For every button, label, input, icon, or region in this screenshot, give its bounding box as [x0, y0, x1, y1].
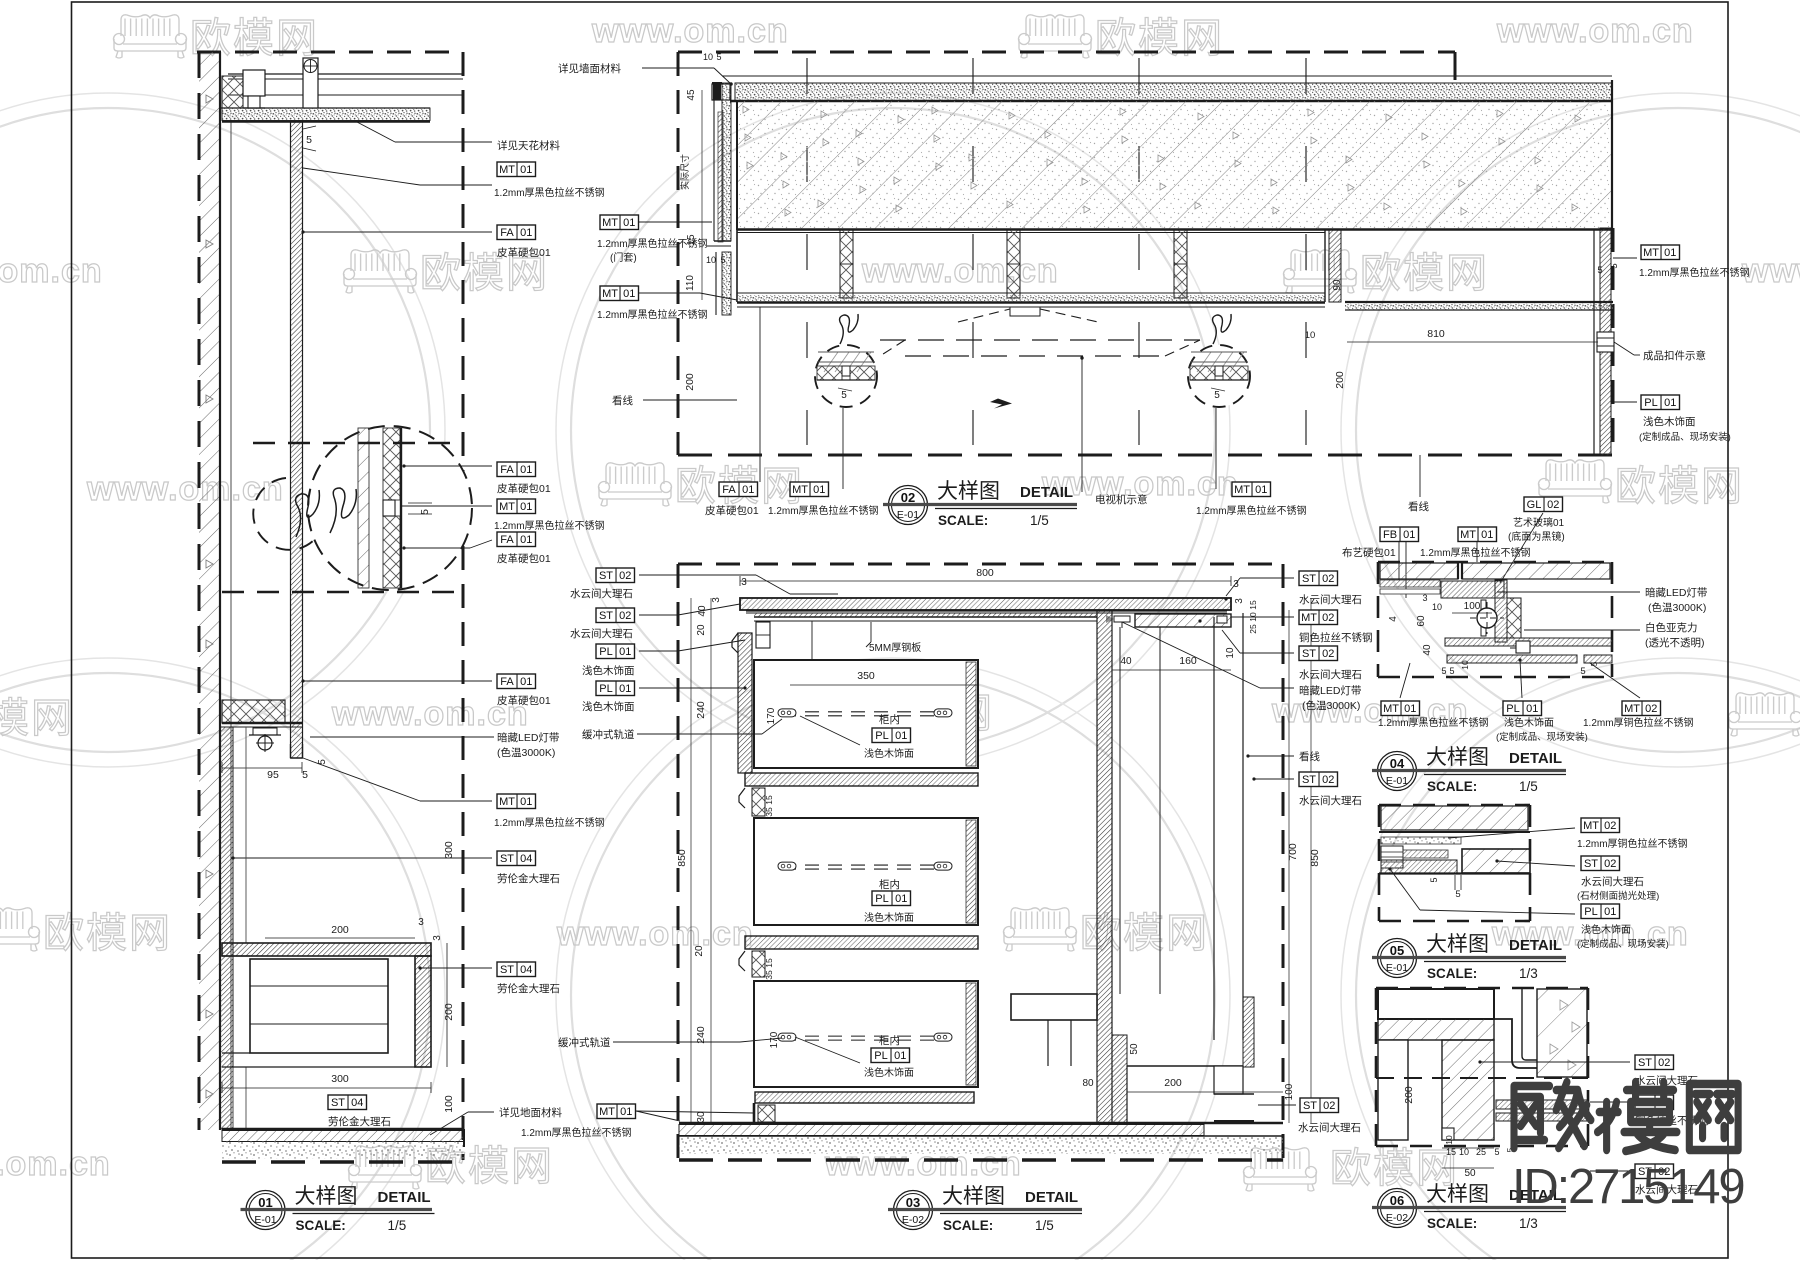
bench/drawer right	[1011, 994, 1097, 1020]
svg-text:5: 5	[716, 52, 721, 62]
svg-text:MT: MT	[1301, 612, 1317, 624]
svg-text:01: 01	[1664, 397, 1676, 409]
svg-text:300: 300	[331, 1073, 349, 1085]
svg-text:01: 01	[520, 534, 532, 546]
dashed lines inside detail01	[253, 442, 462, 445]
svg-text:04: 04	[520, 964, 532, 976]
svg-text:04: 04	[1390, 756, 1405, 771]
svg-text:01: 01	[1255, 484, 1267, 496]
svg-text:02: 02	[1604, 858, 1616, 870]
svg-text:FB: FB	[1383, 529, 1397, 541]
svg-text:3: 3	[1422, 593, 1427, 603]
label ST04 niche	[497, 962, 536, 977]
svg-text:95: 95	[267, 769, 279, 781]
labels left of detail03	[596, 568, 635, 583]
LED fixture detail03	[1114, 616, 1130, 622]
svg-text:www.om.cn: www.om.cn	[861, 252, 1059, 290]
svg-text:浅色木饰面: 浅色木饰面	[582, 664, 635, 677]
svg-text:皮革硬包01: 皮革硬包01	[497, 552, 551, 565]
top wall hatch d05	[1381, 806, 1528, 830]
svg-text:01: 01	[520, 227, 532, 239]
label clip	[1614, 342, 1634, 355]
svg-text:FA: FA	[500, 227, 514, 239]
svg-text:3: 3	[711, 597, 722, 603]
svg-text:10: 10	[706, 255, 716, 265]
svg-text:SCALE:: SCALE:	[1427, 966, 1477, 981]
svg-text:浅色木饰面: 浅色木饰面	[864, 1066, 914, 1079]
svg-text:35: 35	[764, 970, 774, 980]
plinth right zone	[1127, 1065, 1243, 1067]
svg-text:MT: MT	[602, 217, 618, 229]
detail 04 title block	[1372, 746, 1566, 794]
svg-text:水云间大理石: 水云间大理石	[570, 587, 633, 600]
TV dashed silhouette	[1010, 307, 1040, 316]
leader to ceiling label	[357, 122, 395, 142]
svg-text:ID:2715149: ID:2715149	[1512, 1160, 1743, 1214]
cabinet right partition	[1097, 611, 1112, 1124]
svg-text:1/3: 1/3	[1519, 966, 1538, 981]
svg-text:25: 25	[1248, 624, 1258, 634]
svg-text:暗藏LED灯带: 暗藏LED灯带	[1645, 586, 1707, 599]
svg-text:详见地面材料: 详见地面材料	[499, 1106, 562, 1119]
svg-text:(透光不透明): (透光不透明)	[1645, 636, 1705, 649]
top beam d06	[1378, 989, 1494, 1019]
svg-text:1/5: 1/5	[1030, 513, 1049, 528]
concrete hatch band	[737, 102, 1612, 230]
svg-text:(色温3000K): (色温3000K)	[497, 746, 555, 759]
svg-text:ST: ST	[1638, 1057, 1652, 1069]
right wing structure	[1324, 230, 1326, 302]
svg-text:15: 15	[764, 958, 774, 968]
svg-text:01: 01	[619, 646, 631, 658]
svg-text:大样图: 大样图	[942, 1185, 1005, 1208]
svg-text:02: 02	[1658, 1057, 1670, 1069]
svg-text:柜内: 柜内	[879, 1034, 900, 1047]
svg-text:E-01: E-01	[1386, 962, 1408, 974]
svg-text:5: 5	[302, 769, 308, 781]
label FA01 (leather panel)	[497, 225, 536, 240]
svg-text:E-01: E-01	[897, 509, 919, 521]
svg-text:DETAIL: DETAIL	[378, 1189, 431, 1206]
svg-text:5: 5	[1429, 877, 1439, 882]
label MT01 doorframe	[600, 215, 639, 230]
svg-text:1/5: 1/5	[1035, 1218, 1054, 1233]
svg-text:大样图: 大样图	[1426, 1183, 1489, 1206]
svg-text:FA: FA	[722, 484, 736, 496]
svg-text:艺术玻璃01: 艺术玻璃01	[1513, 516, 1565, 529]
ceiling assembly detail01	[228, 73, 463, 75]
svg-text:欧模网: 欧模网	[0, 695, 74, 741]
svg-text:1.2mm厚黑色拉丝不锈钢: 1.2mm厚黑色拉丝不锈钢	[597, 237, 708, 250]
steel plate lines	[754, 616, 1097, 618]
right niche verticals	[1119, 627, 1121, 994]
svg-text:劳伦金大理石: 劳伦金大理石	[497, 982, 560, 995]
break squiggle above right balloon	[1213, 314, 1232, 344]
lower bands d06 (partly hidden by big watermark)	[1496, 1100, 1588, 1109]
svg-text:PL: PL	[599, 683, 612, 695]
svg-text:SCALE:: SCALE:	[943, 1218, 993, 1233]
svg-text:60: 60	[1416, 615, 1427, 627]
svg-text:30: 30	[696, 1111, 707, 1123]
svg-text:SCALE:: SCALE:	[1427, 779, 1477, 794]
svg-text:(色温3000K): (色温3000K)	[1302, 699, 1360, 712]
svg-text:大样图: 大样图	[937, 480, 1000, 503]
shelf band 1	[745, 773, 978, 786]
svg-text:水云间大理石: 水云间大理石	[1299, 593, 1362, 606]
watermark big circles	[0, 108, 430, 752]
svg-text:ST: ST	[1302, 573, 1316, 585]
svg-text:5: 5	[306, 134, 312, 146]
svg-text:100: 100	[443, 1095, 455, 1113]
svg-text:110: 110	[685, 275, 696, 291]
svg-text:PL: PL	[1506, 703, 1519, 715]
svg-text:1.2mm厚黑色拉丝不锈钢: 1.2mm厚黑色拉丝不锈钢	[1639, 266, 1750, 279]
right wall vertical strips	[1593, 230, 1595, 456]
svg-text:15: 15	[764, 795, 774, 805]
svg-text:3: 3	[741, 577, 747, 588]
right concrete d06	[1537, 989, 1587, 1077]
svg-text:成品扣件示意: 成品扣件示意	[1643, 349, 1706, 362]
labels below detail02	[759, 307, 761, 482]
svg-text:05: 05	[1390, 943, 1404, 958]
svg-text:(定制成品、现场安装): (定制成品、现场安装)	[1639, 431, 1731, 443]
svg-text:02: 02	[1322, 648, 1334, 660]
svg-text:1.2mm厚黑色拉丝不锈钢: 1.2mm厚黑色拉丝不锈钢	[494, 816, 605, 829]
svg-text:欧模网: 欧模网	[1615, 463, 1744, 509]
svg-text:MT: MT	[1383, 703, 1399, 715]
svg-text:ST: ST	[1584, 858, 1598, 870]
svg-text:铜色拉丝不锈钢: 铜色拉丝不锈钢	[1299, 631, 1373, 644]
svg-text:1.2mm厚黑色拉丝不锈钢: 1.2mm厚黑色拉丝不锈钢	[521, 1126, 632, 1139]
svg-text:01: 01	[742, 484, 754, 496]
svg-text:01: 01	[895, 730, 907, 742]
svg-text:PL: PL	[874, 1050, 887, 1062]
svg-text:ST: ST	[1303, 1100, 1317, 1112]
svg-text:皮革硬包01: 皮革硬包01	[497, 694, 551, 707]
svg-text:02: 02	[1322, 612, 1334, 624]
detail 04 drawing	[1342, 497, 1707, 743]
svg-text:PL: PL	[875, 893, 888, 905]
curtain pocket panel strip	[291, 122, 303, 758]
detail 01 drawing	[197, 52, 680, 1162]
labels right of detail03	[1299, 571, 1338, 586]
label MT01 lower-left	[600, 286, 639, 301]
detail04 dashed border	[1378, 561, 1612, 564]
svg-text:MT: MT	[499, 501, 515, 513]
svg-text:10: 10	[1225, 647, 1236, 659]
svg-text:MT: MT	[1624, 703, 1640, 715]
label floor material	[430, 1112, 468, 1135]
top hatch band d04	[1380, 563, 1458, 579]
svg-text:15: 15	[1248, 600, 1258, 610]
svg-text:15: 15	[1446, 1147, 1456, 1157]
svg-text:35: 35	[764, 807, 774, 817]
LED fixture symbol	[253, 728, 277, 735]
stone band horizontal d06	[1378, 1019, 1494, 1040]
svg-text:200: 200	[443, 1003, 455, 1021]
svg-text:1.2mm厚黑色拉丝不锈钢: 1.2mm厚黑色拉丝不锈钢	[597, 308, 708, 321]
svg-text:5: 5	[720, 255, 725, 265]
svg-text:缓冲式轨道: 缓冲式轨道	[582, 728, 635, 741]
label TV	[1081, 358, 1083, 492]
svg-text:5: 5	[1580, 666, 1585, 677]
break squiggle above left balloon	[840, 314, 859, 344]
svg-text:暗藏LED灯带: 暗藏LED灯带	[497, 731, 559, 744]
svg-text:浅色木饰面: 浅色木饰面	[1581, 923, 1631, 936]
detail02 dashed borders	[678, 51, 1455, 54]
svg-text:MT: MT	[499, 164, 515, 176]
svg-text:5: 5	[1494, 1147, 1499, 1157]
label 5MM steel plate	[870, 622, 872, 642]
joint balloon right	[1188, 345, 1250, 407]
svg-text:1.2mm厚黑色拉丝不锈钢: 1.2mm厚黑色拉丝不锈钢	[494, 519, 605, 532]
svg-text:200: 200	[331, 924, 349, 936]
svg-text:01: 01	[1526, 703, 1538, 715]
label MT01 (ceiling trim)	[497, 162, 536, 177]
label FA01 wall	[497, 674, 536, 689]
svg-text:缓冲式轨道: 缓冲式轨道	[558, 1036, 611, 1049]
detail06 dashed border	[1376, 987, 1588, 990]
leaders right d04	[1497, 591, 1640, 593]
svg-text:欧模网: 欧模网	[43, 910, 172, 956]
labels above detail04	[1380, 527, 1419, 542]
svg-text:02: 02	[1547, 499, 1559, 511]
bottom shelf band	[755, 1092, 974, 1103]
svg-text:1.2mm厚黑色拉丝不锈钢: 1.2mm厚黑色拉丝不锈钢	[1378, 716, 1489, 729]
svg-text:25: 25	[1476, 1147, 1486, 1157]
notch	[1442, 1128, 1454, 1140]
svg-text:欧模网: 欧模网	[1095, 15, 1224, 61]
label FA01 upper	[497, 462, 536, 477]
ceiling hanger bolt with circle-cross	[303, 58, 318, 108]
break squiggle	[296, 490, 320, 537]
svg-text:5: 5	[1449, 666, 1454, 676]
clip connector	[1597, 332, 1614, 352]
svg-text:E-01: E-01	[1386, 775, 1408, 787]
detail 02 drawing	[558, 52, 1750, 517]
label MT01 lower	[497, 794, 536, 809]
svg-text:800: 800	[976, 567, 994, 579]
cabinet box 1	[754, 660, 978, 768]
svg-text:01: 01	[1404, 703, 1416, 715]
svg-text:01: 01	[520, 464, 532, 476]
svg-text:1.2mm厚黑色拉丝不锈钢: 1.2mm厚黑色拉丝不锈钢	[768, 504, 879, 517]
svg-text:PL: PL	[1584, 906, 1597, 918]
svg-text:01: 01	[520, 676, 532, 688]
svg-text:01: 01	[1481, 529, 1493, 541]
svg-text:浅色木饰面: 浅色木饰面	[1643, 415, 1696, 428]
detail 06 drawing	[1376, 988, 1709, 1196]
svg-text:5: 5	[1597, 265, 1602, 276]
svg-text:1.2mm厚黑色拉丝不锈钢: 1.2mm厚黑色拉丝不锈钢	[1196, 504, 1307, 517]
svg-text:ST: ST	[331, 1097, 345, 1109]
cabinet door panel left	[738, 633, 752, 773]
svg-text:20: 20	[694, 945, 705, 957]
svg-text:350: 350	[857, 670, 875, 682]
svg-text:5: 5	[1609, 263, 1620, 268]
svg-text:02: 02	[619, 610, 631, 622]
svg-text:100: 100	[1284, 1083, 1295, 1100]
big site watermark bottom right	[1514, 1082, 1738, 1151]
svg-text:看线: 看线	[612, 394, 633, 407]
svg-text:大样图: 大样图	[1426, 933, 1489, 956]
detail03 dashed borders	[678, 563, 1283, 566]
detail 03 drawing	[639, 564, 1321, 1160]
svg-text:水云间大理石: 水云间大理石	[1299, 668, 1362, 681]
svg-text:01: 01	[1604, 906, 1616, 918]
svg-text:水云间大理石: 水云间大理石	[1299, 794, 1362, 807]
label sightline right	[1419, 455, 1421, 497]
detail 01 title block	[241, 1185, 435, 1233]
svg-text:E-02: E-02	[902, 1214, 924, 1226]
svg-text:DETAIL: DETAIL	[1020, 484, 1073, 501]
svg-text:3: 3	[432, 935, 443, 941]
svg-text:200: 200	[1164, 1077, 1182, 1089]
labels right d06	[1635, 1055, 1674, 1070]
label MT01 mid	[497, 499, 536, 514]
svg-text:01: 01	[813, 484, 825, 496]
svg-text:E-02: E-02	[1386, 1212, 1408, 1224]
svg-text:50: 50	[1129, 1043, 1140, 1055]
svg-text:MT: MT	[499, 796, 515, 808]
svg-text:MT: MT	[1643, 247, 1659, 259]
cavity studs below band	[737, 232, 1325, 234]
svg-text:电视机示意: 电视机示意	[1095, 493, 1148, 506]
svg-text:DETAIL: DETAIL	[1025, 1189, 1078, 1206]
svg-text:水云间大理石: 水云间大理石	[570, 627, 633, 640]
svg-text:01: 01	[620, 1106, 632, 1118]
svg-text:200: 200	[1334, 371, 1346, 389]
svg-text:ST: ST	[599, 570, 613, 582]
MT02 recessed band	[1135, 614, 1231, 627]
svg-text:1.2mm厚黑色拉丝不锈钢: 1.2mm厚黑色拉丝不锈钢	[494, 186, 605, 199]
svg-text:(门套): (门套)	[610, 251, 637, 264]
svg-text:GL: GL	[1527, 499, 1542, 511]
svg-text:SCALE:: SCALE:	[296, 1218, 346, 1233]
lower bands d04	[1445, 638, 1612, 646]
svg-text:01: 01	[623, 217, 635, 229]
svg-text:浅色木饰面: 浅色木饰面	[1504, 716, 1554, 729]
svg-text:FA: FA	[500, 534, 514, 546]
svg-text:www.om.cn: www.om.cn	[1741, 252, 1800, 290]
svg-text:01: 01	[619, 683, 631, 695]
floor detail03	[679, 1122, 1283, 1124]
cabinet box 3	[754, 981, 978, 1087]
svg-text:www.om.cn: www.om.cn	[556, 915, 754, 953]
shelf band 2	[745, 936, 978, 949]
svg-text:www.om.cn: www.om.cn	[0, 252, 103, 290]
svg-text:(底面为黑镜): (底面为黑镜)	[1508, 530, 1565, 543]
svg-text:10: 10	[1459, 1147, 1469, 1157]
svg-text:06: 06	[1390, 1193, 1404, 1208]
stone column vertical d06	[1442, 1040, 1494, 1140]
plaster stipple band detail01 ceiling	[222, 108, 430, 121]
svg-text:水云间大理石: 水云间大理石	[1298, 1121, 1361, 1134]
svg-text:300: 300	[443, 841, 455, 859]
svg-text:1/5: 1/5	[1519, 779, 1538, 794]
svg-text:40: 40	[1120, 656, 1132, 667]
svg-text:80: 80	[1082, 1078, 1094, 1089]
niche stone surround	[222, 943, 431, 956]
svg-text:850: 850	[676, 849, 688, 867]
svg-text:ST: ST	[500, 853, 514, 865]
svg-text:(色温3000K): (色温3000K)	[1648, 601, 1706, 614]
svg-text:5: 5	[1214, 390, 1220, 401]
svg-text:DETAIL: DETAIL	[1509, 750, 1562, 767]
svg-text:20: 20	[696, 624, 707, 636]
label MT01 right	[1641, 245, 1680, 260]
svg-text:4: 4	[1388, 616, 1399, 622]
svg-text:01: 01	[1664, 247, 1676, 259]
svg-text:04: 04	[520, 853, 532, 865]
svg-text:240: 240	[695, 1026, 707, 1044]
svg-text:ST: ST	[1302, 648, 1316, 660]
svg-text:皮革硬包01: 皮革硬包01	[497, 246, 551, 259]
svg-text:MT: MT	[792, 484, 808, 496]
svg-text:3: 3	[1234, 598, 1245, 604]
detail 05 drawing	[1379, 805, 1688, 950]
LED circle d04	[1481, 600, 1486, 636]
svg-text:大样图: 大样图	[1426, 746, 1489, 769]
stone slab right d05	[1462, 849, 1530, 873]
svg-text:40: 40	[1422, 644, 1433, 656]
balloon zoom circle detail01	[308, 426, 472, 590]
zigzag arrow mark	[990, 395, 1012, 409]
labels below d04	[1381, 701, 1420, 716]
svg-text:10: 10	[1432, 602, 1442, 612]
svg-text:PL: PL	[875, 730, 888, 742]
svg-text:100: 100	[1464, 601, 1481, 612]
svg-text:E-01: E-01	[254, 1214, 276, 1226]
joint balloon left	[815, 345, 877, 407]
floor detail01	[222, 1128, 464, 1130]
detail 01 dashed border right	[462, 52, 465, 1160]
svg-text:详见墙面材料: 详见墙面材料	[558, 62, 621, 75]
svg-text:02: 02	[1323, 1100, 1335, 1112]
layered bands d04	[1380, 580, 1440, 587]
svg-text:看线: 看线	[1299, 750, 1321, 763]
svg-text:白色亚克力: 白色亚克力	[1645, 621, 1698, 634]
svg-text:www.om.cn: www.om.cn	[86, 470, 284, 508]
svg-text:01: 01	[623, 288, 635, 300]
svg-text:MT: MT	[1460, 529, 1476, 541]
svg-text:布艺硬包01: 布艺硬包01	[1342, 546, 1396, 559]
labels LED cove	[310, 736, 494, 738]
svg-text:SCALE:: SCALE:	[938, 513, 988, 528]
svg-text:详见天花材料: 详见天花材料	[497, 139, 560, 152]
svg-text:10: 10	[1460, 660, 1470, 670]
svg-text:浅色木饰面: 浅色木饰面	[582, 700, 635, 713]
svg-text:1/5: 1/5	[388, 1218, 407, 1233]
svg-text:03: 03	[906, 1195, 920, 1210]
LED cove detail01	[222, 700, 285, 723]
watermark tiles	[114, 15, 187, 58]
svg-text:看线: 看线	[1408, 500, 1430, 513]
finish layers below cavity	[737, 292, 1325, 294]
svg-text:01: 01	[258, 1195, 272, 1210]
svg-text:02: 02	[1604, 820, 1616, 832]
svg-text:www.om.cn: www.om.cn	[591, 12, 789, 50]
label ST04 bottom	[328, 1095, 367, 1110]
svg-text:ST: ST	[500, 964, 514, 976]
svg-text:暗藏LED灯带: 暗藏LED灯带	[1299, 684, 1361, 697]
label MT01 floor	[597, 1104, 636, 1119]
svg-text:02: 02	[1322, 573, 1334, 585]
svg-text:04: 04	[351, 1097, 363, 1109]
svg-text:皮革硬包01: 皮革硬包01	[705, 504, 759, 517]
svg-text:02: 02	[901, 490, 915, 505]
svg-text:浅色木饰面: 浅色木饰面	[864, 747, 914, 760]
